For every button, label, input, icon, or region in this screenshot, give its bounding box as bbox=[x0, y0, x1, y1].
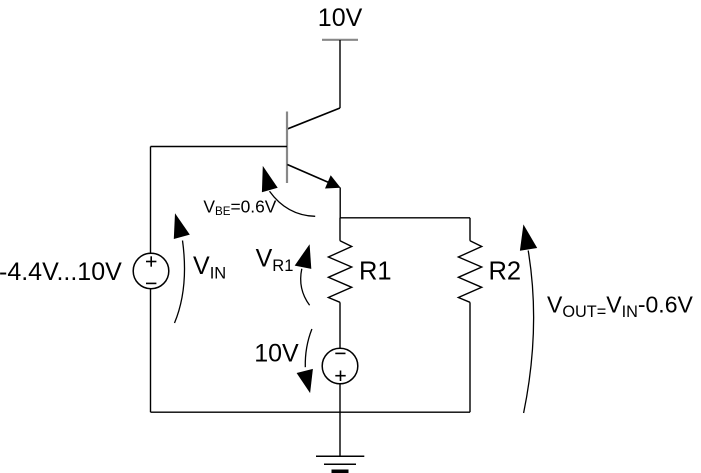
svg-text:10V: 10V bbox=[254, 340, 299, 368]
svg-text:R2: R2 bbox=[489, 258, 522, 286]
svg-text:VR1: VR1 bbox=[256, 245, 294, 276]
svg-text:VOUT=VIN-0.6V: VOUT=VIN-0.6V bbox=[547, 292, 693, 322]
svg-text:VBE=0.6V: VBE=0.6V bbox=[203, 197, 276, 219]
svg-text:R1: R1 bbox=[359, 258, 392, 286]
svg-text:10V: 10V bbox=[318, 4, 363, 32]
svg-text:VIN: VIN bbox=[193, 252, 226, 283]
svg-text:-4.4V...10V: -4.4V...10V bbox=[0, 258, 122, 286]
